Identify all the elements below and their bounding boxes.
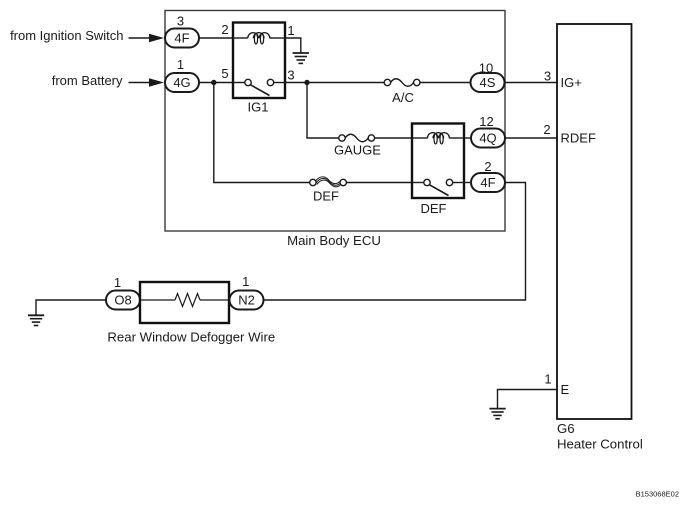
svg-text:2: 2 xyxy=(543,122,550,137)
wire DEF breaker to DEF relay switch xyxy=(346,182,412,184)
relay DEF coil xyxy=(412,133,464,144)
svg-text:1: 1 xyxy=(242,274,249,289)
circuit breaker DEF xyxy=(310,177,347,204)
wire riser to GAUGE row xyxy=(307,83,339,139)
svg-text:DEF: DEF xyxy=(313,189,339,204)
svg-text:Rear Window Defogger Wire: Rear Window Defogger Wire xyxy=(107,330,275,345)
svg-text:O8: O8 xyxy=(114,293,131,308)
svg-text:4F: 4F xyxy=(480,175,495,190)
wire relay pin1 to ground xyxy=(285,38,301,53)
svg-text:G6: G6 xyxy=(557,421,575,436)
heater control box xyxy=(557,24,643,452)
wire 4S to heater control IG+ xyxy=(505,82,558,84)
connector 4G xyxy=(165,73,199,92)
svg-text:N2: N2 xyxy=(238,293,255,308)
fuse GAUGE xyxy=(334,134,381,157)
rear window defogger wire box xyxy=(107,282,275,345)
svg-text:Heater Control: Heater Control xyxy=(557,437,643,452)
wire GAUGE to DEF relay coil xyxy=(375,137,412,139)
Main Body ECU box xyxy=(165,11,505,249)
arrow into 4F xyxy=(129,34,165,43)
relay IG1 switch xyxy=(233,79,285,95)
svg-text:Main Body ECU: Main Body ECU xyxy=(287,233,381,248)
wire E to ground xyxy=(498,390,558,409)
wire riser to DEF row xyxy=(214,83,310,183)
svg-text:RDEF: RDEF xyxy=(561,131,596,146)
svg-text:5: 5 xyxy=(221,66,228,81)
wire 4G to relay pin 5 xyxy=(199,82,233,84)
svg-text:E: E xyxy=(561,382,570,397)
svg-text:4Q: 4Q xyxy=(479,131,496,146)
svg-text:1: 1 xyxy=(177,57,184,72)
svg-text:4F: 4F xyxy=(174,31,189,46)
connector 4S xyxy=(471,73,505,92)
junction node after relay pin3 xyxy=(304,80,309,85)
relay IG1 coil xyxy=(233,33,285,44)
arrow into 4G xyxy=(129,78,165,87)
relay DEF box xyxy=(412,124,464,217)
svg-text:from Ignition Switch: from Ignition Switch xyxy=(10,28,123,43)
ground (defogger wire left) xyxy=(28,300,106,326)
svg-text:4G: 4G xyxy=(173,75,190,90)
ground (heater control E) xyxy=(489,409,505,419)
svg-text:3: 3 xyxy=(287,68,294,83)
svg-text:2: 2 xyxy=(484,159,491,174)
svg-text:12: 12 xyxy=(479,114,493,129)
svg-text:1: 1 xyxy=(544,372,551,387)
svg-text:DEF: DEF xyxy=(421,201,447,216)
svg-text:B153068E02: B153068E02 xyxy=(636,490,679,499)
svg-text:2: 2 xyxy=(221,22,228,37)
connector N2 xyxy=(230,291,264,310)
wire 4F to relay coil pin 2 xyxy=(199,37,233,39)
connector 4F xyxy=(165,29,199,48)
resistor element xyxy=(140,294,229,307)
connector O8 xyxy=(106,291,140,310)
svg-text:IG+: IG+ xyxy=(561,75,582,90)
svg-text:1: 1 xyxy=(287,23,294,38)
svg-text:3: 3 xyxy=(544,69,551,84)
wire A/C fuse to 4S xyxy=(420,82,471,84)
wire DEF switch to 4F xyxy=(464,182,471,184)
svg-text:3: 3 xyxy=(177,14,184,29)
svg-text:1: 1 xyxy=(114,275,121,290)
svg-text:4S: 4S xyxy=(480,75,496,90)
junction node after 4G xyxy=(211,80,216,85)
wire 4Q to heater RDEF xyxy=(505,137,557,139)
wire relay pin3 to A/C fuse xyxy=(285,82,384,84)
fuse A/C xyxy=(384,79,420,105)
svg-text:A/C: A/C xyxy=(392,90,414,105)
connector 4F lower xyxy=(471,173,505,192)
relay IG1 box xyxy=(233,23,285,115)
ground (relay IG1 coil) xyxy=(293,53,309,63)
connector 4Q xyxy=(471,129,505,148)
relay DEF switch xyxy=(412,179,464,195)
svg-text:IG1: IG1 xyxy=(248,100,269,115)
wire 4F down to defogger row xyxy=(264,183,526,301)
svg-text:GAUGE: GAUGE xyxy=(334,143,381,158)
svg-text:from Battery: from Battery xyxy=(52,73,123,88)
wire DEF coil to 4Q xyxy=(464,137,471,139)
